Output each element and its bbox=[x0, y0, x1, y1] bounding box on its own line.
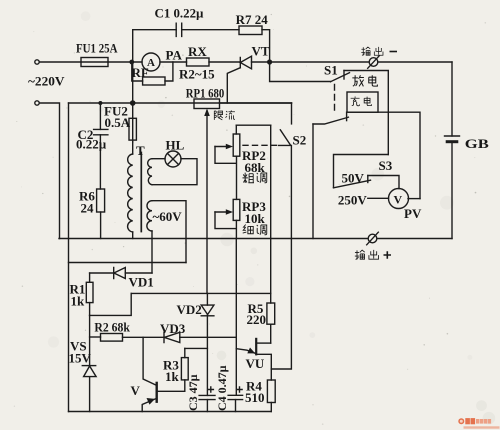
wire VT gate bbox=[227, 68, 240, 103]
svg-text:C3 47µ: C3 47µ bbox=[186, 374, 200, 411]
wire HL loop bbox=[152, 159, 197, 185]
svg-text:RX: RX bbox=[188, 44, 207, 59]
wire bbox=[236, 156, 238, 199]
terminal output-plus bbox=[368, 234, 377, 243]
svg-text:220: 220 bbox=[247, 312, 267, 327]
resistor R6 bbox=[97, 189, 105, 212]
wiper RP3 bbox=[215, 211, 230, 213]
wire bbox=[89, 315, 91, 365]
svg-text:RP1 680: RP1 680 bbox=[186, 86, 225, 101]
node junction VT cathode bbox=[267, 59, 272, 64]
transformer T primary winding bbox=[128, 154, 133, 232]
capacitor C3 bbox=[199, 395, 215, 399]
watermark logo bbox=[458, 418, 499, 429]
svg-text:HL: HL bbox=[166, 138, 185, 153]
resistor R5 bbox=[270, 125, 272, 303]
potentiometer RP2 top wire bbox=[236, 124, 270, 126]
svg-text:R2 68k: R2 68k bbox=[94, 320, 130, 335]
svg-text:R2~15: R2~15 bbox=[179, 67, 215, 82]
switch S1 gang dashes bbox=[334, 85, 336, 113]
switch S2 gang dashes bbox=[243, 144, 277, 146]
svg-text:15V: 15V bbox=[69, 351, 92, 366]
svg-text:PV: PV bbox=[404, 206, 422, 221]
capacitor C4 bbox=[228, 395, 243, 399]
svg-text:1k: 1k bbox=[71, 294, 86, 309]
shunt RF branch wire bbox=[132, 62, 143, 81]
wire discharge contact bbox=[344, 71, 388, 155]
terminal X2 (~220V neutral) bbox=[35, 101, 39, 105]
svg-text:T: T bbox=[136, 143, 145, 158]
node junction at FU1/PA bbox=[129, 60, 134, 65]
svg-text:50V: 50V bbox=[342, 171, 365, 186]
thyristor VT bbox=[240, 56, 251, 69]
capacitor C2 bbox=[99, 103, 101, 129]
wire bbox=[209, 61, 240, 63]
switch S3 feed wire bbox=[334, 155, 389, 188]
switch S2 wire bbox=[291, 103, 293, 124]
battery GB bbox=[445, 135, 460, 137]
svg-text:0.5A: 0.5A bbox=[105, 115, 131, 130]
wiper arrow RP1 bbox=[206, 111, 208, 293]
wire bbox=[132, 142, 134, 154]
label charge (CJK) bbox=[351, 96, 372, 105]
node junction FU2 tap bbox=[130, 100, 136, 106]
transformer secondary winding 60V bbox=[147, 201, 152, 231]
svg-text:C4 0.47µ: C4 0.47µ bbox=[215, 365, 229, 411]
switch S2 blade bbox=[280, 130, 290, 145]
wire bbox=[235, 220, 237, 238]
capacitor C1 branch wire bbox=[133, 30, 177, 62]
svg-text:PA: PA bbox=[166, 48, 183, 63]
wire bbox=[180, 336, 237, 338]
svg-text:GB: GB bbox=[465, 136, 489, 151]
wire bbox=[39, 61, 81, 63]
switch S1 blade lower bbox=[313, 117, 348, 124]
svg-text:1k: 1k bbox=[165, 369, 180, 384]
potentiometer RP2 bbox=[233, 134, 240, 156]
wire mains bus y103 bbox=[69, 102, 292, 104]
potentiometer RP1 bbox=[194, 99, 220, 109]
resistor R1 bbox=[89, 273, 91, 282]
wire output-plus bus bbox=[59, 238, 452, 240]
svg-text:R7 24: R7 24 bbox=[236, 12, 269, 27]
wiper RP2 bbox=[215, 146, 230, 148]
transistor V collector wire bbox=[143, 337, 156, 385]
wire 50V contact bbox=[368, 176, 399, 189]
wire bbox=[262, 30, 270, 62]
wire charge contact bbox=[348, 112, 420, 198]
wire bbox=[151, 231, 153, 273]
terminal X1 (~220V live) bbox=[35, 60, 39, 64]
svg-text:250V: 250V bbox=[338, 193, 368, 208]
svg-text:VT: VT bbox=[252, 44, 270, 59]
resistor R2 bbox=[101, 334, 123, 342]
wire bbox=[132, 232, 134, 239]
svg-text:~220V: ~220V bbox=[28, 74, 65, 89]
fuse FU1 bbox=[81, 58, 108, 67]
wire bbox=[100, 212, 102, 239]
diode VD1 bbox=[114, 268, 126, 279]
svg-text:VD2: VD2 bbox=[177, 302, 202, 317]
svg-text:510: 510 bbox=[245, 390, 265, 405]
wire bbox=[312, 124, 314, 239]
wire VD2 line bbox=[131, 292, 271, 294]
svg-text:V: V bbox=[131, 383, 141, 398]
capacitor C1 bbox=[176, 23, 182, 36]
wire S2 bottom bbox=[271, 145, 291, 369]
wire bbox=[39, 103, 59, 239]
resistor R4 bbox=[267, 380, 275, 403]
switch S1 blade upper bbox=[331, 73, 350, 82]
diode VD3 bbox=[164, 332, 180, 342]
resistor RF bbox=[143, 77, 165, 85]
wire bbox=[252, 61, 270, 63]
zener VS bbox=[82, 365, 95, 367]
label coarse-adjust (CJK) bbox=[242, 173, 266, 183]
wire bbox=[160, 61, 187, 63]
terminal output-minus bbox=[369, 58, 378, 67]
svg-text:VD3: VD3 bbox=[160, 321, 186, 336]
wire 250V contact bbox=[368, 197, 389, 199]
wire bottom bus bbox=[69, 411, 272, 413]
svg-text:A: A bbox=[147, 57, 155, 69]
wire bbox=[182, 29, 239, 31]
unijunction VU bbox=[257, 342, 271, 344]
svg-text:S2: S2 bbox=[293, 133, 307, 148]
diode VD2 bbox=[206, 293, 208, 305]
label output-minus (CJK) bbox=[361, 47, 397, 56]
box charge label bbox=[347, 92, 378, 112]
wire bbox=[108, 61, 142, 63]
svg-text:S1: S1 bbox=[324, 63, 338, 78]
node junction C2 tap bbox=[98, 101, 102, 105]
resistor R7 bbox=[239, 26, 262, 35]
wire bbox=[165, 62, 173, 81]
ammeter PA bbox=[142, 53, 160, 71]
svg-text:FU1 25A: FU1 25A bbox=[76, 41, 118, 56]
lamp HL bbox=[165, 151, 181, 167]
label output-plus (CJK) bbox=[355, 250, 391, 260]
switch S1 common wire bbox=[270, 62, 331, 82]
VU emitter wire bbox=[236, 349, 255, 354]
wire left vertical bbox=[68, 103, 70, 412]
svg-text:VD1: VD1 bbox=[129, 275, 154, 290]
svg-text:0.22µ: 0.22µ bbox=[76, 137, 107, 152]
svg-text:VU: VU bbox=[246, 356, 265, 371]
wire R3 top bbox=[185, 347, 208, 349]
wire RP3/C4 column bbox=[235, 239, 237, 396]
transformer secondary winding HL bbox=[148, 159, 152, 185]
svg-text:V: V bbox=[394, 193, 403, 207]
wire bbox=[152, 158, 165, 160]
label fine-adjust (CJK) bbox=[243, 224, 267, 234]
voltmeter PV bbox=[389, 189, 409, 209]
wire R2 line bbox=[90, 336, 101, 338]
wire bbox=[270, 61, 369, 63]
label current-limit (CJK) bbox=[214, 110, 235, 120]
transistor V emitter bbox=[142, 399, 156, 412]
label discharge (CJK) bbox=[352, 75, 377, 86]
svg-text:C1 0.22µ: C1 0.22µ bbox=[155, 6, 204, 21]
svg-text:~60V: ~60V bbox=[153, 209, 183, 224]
wire R1 to VD2 line bbox=[90, 293, 132, 315]
wire to PV bbox=[408, 198, 420, 200]
wire bbox=[451, 144, 453, 239]
transistor V base bar bbox=[155, 383, 157, 402]
svg-text:24: 24 bbox=[81, 201, 95, 216]
wire bus2 bbox=[69, 262, 187, 264]
wire VD1 line bbox=[90, 272, 114, 274]
wire bbox=[451, 62, 453, 136]
fuse FU2 bbox=[132, 62, 134, 118]
wire RP1 to S2 corner bbox=[220, 102, 292, 104]
resistor R3 bbox=[184, 348, 186, 357]
wire bbox=[378, 61, 452, 63]
svg-text:S3: S3 bbox=[379, 158, 393, 173]
transformer core bbox=[140, 153, 142, 232]
wire bbox=[123, 336, 165, 338]
switch S3 blade bbox=[334, 180, 371, 188]
transistor V base wire bbox=[158, 390, 185, 392]
potentiometer RP3 bbox=[233, 199, 240, 220]
wire bbox=[152, 201, 186, 263]
resistor RX bbox=[187, 58, 210, 66]
